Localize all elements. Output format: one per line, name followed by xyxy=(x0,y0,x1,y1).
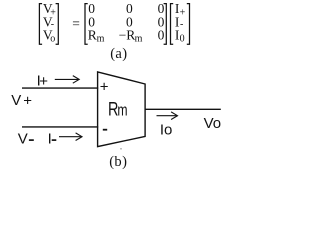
arrow Io current direction xyxy=(157,112,178,120)
node I vector right bracket xyxy=(187,4,190,45)
svg-text:R: R xyxy=(88,28,97,43)
svg-text:m: m xyxy=(135,34,143,45)
svg-text:+: + xyxy=(100,79,109,96)
wire bottom input xyxy=(22,126,98,128)
node I vector left bracket xyxy=(171,4,174,45)
svg-text:m: m xyxy=(117,102,127,120)
svg-text:Io: Io xyxy=(160,121,173,138)
arrow I+ current direction xyxy=(55,76,79,84)
svg-text:(a): (a) xyxy=(110,46,127,62)
svg-text:V: V xyxy=(11,92,21,109)
wire top input xyxy=(22,87,98,89)
svg-text:V: V xyxy=(18,131,28,148)
arrow I- current direction xyxy=(59,133,82,141)
node V vector right bracket xyxy=(56,4,59,45)
svg-text:m: m xyxy=(97,34,105,45)
stray mark dot xyxy=(120,148,122,150)
svg-text:-: - xyxy=(180,19,183,30)
svg-text:I: I xyxy=(48,131,52,148)
node V vector left bracket xyxy=(39,4,42,45)
svg-text:−R: −R xyxy=(119,28,136,43)
svg-text:0: 0 xyxy=(180,34,185,45)
wire output xyxy=(145,108,221,110)
svg-text:+: + xyxy=(39,73,48,90)
node matrix left bracket xyxy=(85,4,88,45)
svg-text:0: 0 xyxy=(158,28,165,43)
svg-text:(b): (b) xyxy=(109,154,127,170)
svg-text:+: + xyxy=(23,93,32,110)
value Rm inside body xyxy=(108,98,127,121)
svg-text:o: o xyxy=(50,34,55,45)
svg-text:+: + xyxy=(180,8,186,19)
svg-text:=: = xyxy=(72,16,80,31)
pin - inside body xyxy=(103,129,107,131)
op-amp Rm trapezoid body xyxy=(98,72,146,147)
node matrix right bracket xyxy=(164,4,167,45)
svg-text:Vo: Vo xyxy=(204,115,222,132)
